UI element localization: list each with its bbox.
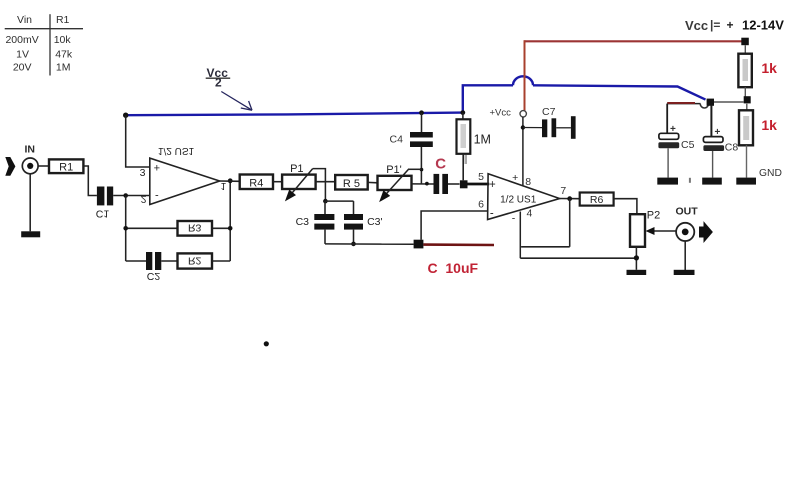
svg-text:R4: R4 <box>249 177 263 189</box>
svg-text:GND: GND <box>759 168 782 179</box>
svg-text:R1: R1 <box>59 162 73 174</box>
svg-text:5: 5 <box>478 171 484 183</box>
svg-text:-: - <box>490 208 494 220</box>
svg-text:C5: C5 <box>681 139 695 151</box>
svg-text:Vin: Vin <box>17 14 32 26</box>
svg-text:20V: 20V <box>13 62 32 74</box>
svg-text:2: 2 <box>141 193 147 205</box>
svg-text:R 5: R 5 <box>343 178 360 190</box>
svg-text:+: + <box>727 18 734 32</box>
svg-text:C1: C1 <box>96 208 110 220</box>
svg-text:8: 8 <box>525 176 531 188</box>
svg-text:C: C <box>435 155 446 172</box>
svg-text:+: + <box>154 163 160 175</box>
svg-text:OUT: OUT <box>676 206 699 218</box>
svg-text:47k: 47k <box>55 49 73 61</box>
svg-text:IN: IN <box>25 144 36 156</box>
svg-text:C3: C3 <box>296 216 310 228</box>
svg-text:1k: 1k <box>761 60 777 76</box>
svg-text:C7: C7 <box>542 106 556 118</box>
svg-text:P2: P2 <box>647 209 660 221</box>
svg-text:+Vcc: +Vcc <box>490 108 512 119</box>
svg-text:C 10uF: C 10uF <box>428 260 479 276</box>
svg-text:7: 7 <box>560 185 566 197</box>
svg-text:3: 3 <box>140 167 146 179</box>
svg-text:200mV: 200mV <box>5 34 38 46</box>
svg-text:1V: 1V <box>16 49 29 61</box>
svg-text:1/2 US1: 1/2 US1 <box>500 195 537 206</box>
svg-text:C4: C4 <box>390 134 404 146</box>
svg-text:1k: 1k <box>761 117 777 133</box>
svg-text:P1': P1' <box>386 164 402 176</box>
svg-text:1M: 1M <box>474 133 491 147</box>
svg-text:C8: C8 <box>725 142 739 154</box>
svg-text:1M: 1M <box>56 62 71 74</box>
svg-text:10k: 10k <box>54 34 72 46</box>
svg-text:C3': C3' <box>367 216 382 228</box>
svg-text:R3: R3 <box>188 222 202 234</box>
svg-text:4: 4 <box>526 208 532 220</box>
svg-text:R6: R6 <box>590 194 604 206</box>
svg-text:6: 6 <box>478 199 484 211</box>
svg-text:Vcc: Vcc <box>685 18 708 33</box>
svg-text:+: + <box>489 179 496 191</box>
svg-text:R2: R2 <box>188 255 202 267</box>
svg-text:-: - <box>512 213 516 225</box>
svg-text:+: + <box>512 172 518 184</box>
svg-text:1/2 US1: 1/2 US1 <box>158 145 195 156</box>
svg-text:12-14V: 12-14V <box>742 18 784 33</box>
svg-text:-: - <box>155 190 159 202</box>
svg-text:C2: C2 <box>147 270 161 282</box>
svg-text:P1: P1 <box>290 163 303 175</box>
svg-text:R1: R1 <box>56 14 70 26</box>
svg-text:|=: |= <box>710 18 720 32</box>
